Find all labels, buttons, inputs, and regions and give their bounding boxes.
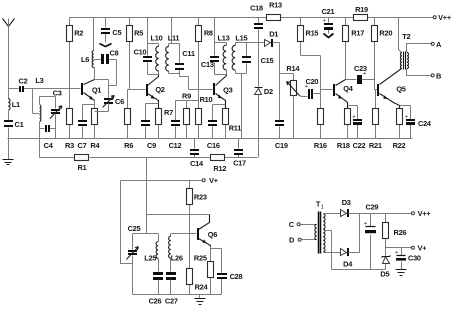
svg-text:C24: C24 bbox=[418, 119, 432, 128]
inductor L25 bbox=[144, 234, 158, 272]
wire R14 feed bbox=[280, 74, 294, 121]
svg-text:R6: R6 bbox=[124, 141, 133, 150]
wire T1 center tap bbox=[324, 231, 332, 270]
svg-text:D5: D5 bbox=[380, 269, 389, 278]
inductor L15 bbox=[232, 45, 235, 70]
transformer T2 bbox=[399, 18, 432, 76]
SECTION: IF stage Q3 bbox=[169, 18, 274, 174]
capacitor C29 electrolytic bbox=[364, 202, 379, 269]
inductor L13 bbox=[223, 45, 226, 70]
capacitor C30 electrolytic bbox=[395, 248, 421, 270]
svg-text:R15: R15 bbox=[305, 28, 318, 37]
svg-text:+: + bbox=[352, 114, 355, 120]
terminal V++ psu bbox=[411, 209, 431, 218]
ground G3 psu bbox=[396, 270, 407, 276]
transistor Q3 bbox=[213, 75, 233, 109]
svg-text:V+: V+ bbox=[209, 176, 219, 185]
svg-text:C22: C22 bbox=[353, 141, 366, 150]
capacitor C19 bbox=[275, 120, 288, 150]
svg-text:C25: C25 bbox=[128, 224, 141, 233]
svg-text:L13: L13 bbox=[218, 33, 230, 42]
svg-text:D1: D1 bbox=[269, 30, 278, 39]
inductor L3 bbox=[35, 76, 43, 121]
wire detector node line bbox=[247, 30, 265, 158]
svg-text:C21: C21 bbox=[322, 7, 335, 16]
svg-text:L10: L10 bbox=[151, 33, 163, 42]
svg-text:C8: C8 bbox=[110, 48, 119, 57]
svg-text:C14: C14 bbox=[190, 159, 204, 168]
capacitor C13 bbox=[210, 56, 219, 58]
svg-text:C26: C26 bbox=[149, 297, 162, 306]
svg-text:Q1: Q1 bbox=[92, 86, 101, 95]
svg-text:+: + bbox=[405, 114, 408, 120]
svg-text:R21: R21 bbox=[369, 141, 382, 150]
capacitor C1 bbox=[4, 120, 24, 129]
capacitor C16 bbox=[207, 105, 226, 151]
wire top supply bus bbox=[70, 17, 434, 19]
tank L11 C11 bbox=[166, 18, 195, 74]
T2 secondary bbox=[407, 53, 409, 69]
trimmer C3 bbox=[40, 88, 62, 138]
wire T1 secondary bottom to D4 bbox=[324, 252, 341, 254]
tank L15 C15 bbox=[232, 33, 273, 138]
svg-text:L3: L3 bbox=[35, 76, 43, 85]
svg-text:D2: D2 bbox=[264, 87, 273, 96]
capacitor C23 bbox=[354, 64, 375, 84]
svg-text:+: + bbox=[395, 250, 398, 256]
capacitor C2 bbox=[19, 77, 28, 92]
svg-text:R1: R1 bbox=[78, 163, 87, 172]
wire main ground bus1 bbox=[8, 138, 413, 140]
inductor L11 bbox=[166, 46, 169, 71]
wire L3 bottom to bus2 bbox=[39, 122, 41, 158]
svg-text:1: 1 bbox=[321, 205, 324, 211]
transistor Q2 bbox=[146, 75, 165, 109]
capacitor C18 bbox=[250, 4, 263, 30]
svg-text:V++: V++ bbox=[418, 209, 432, 218]
wire L1-C1 bbox=[8, 110, 10, 121]
svg-text:R19: R19 bbox=[355, 5, 368, 14]
svg-text:Q4: Q4 bbox=[343, 84, 353, 93]
resistor R21 bbox=[369, 90, 382, 151]
svg-text:L6: L6 bbox=[81, 55, 89, 64]
resistor R22 bbox=[393, 109, 406, 151]
svg-text:C3: C3 bbox=[53, 88, 62, 97]
T2 primary bbox=[400, 53, 402, 69]
resistor R9 bbox=[182, 92, 191, 139]
trimmer C6 bbox=[95, 95, 125, 111]
svg-text:C28: C28 bbox=[230, 272, 243, 281]
capacitor C15 bbox=[242, 56, 251, 58]
node A1 wire C2 branch bbox=[9, 88, 33, 90]
svg-text:R13: R13 bbox=[269, 1, 282, 10]
svg-text:C20: C20 bbox=[305, 77, 318, 86]
svg-text:D4: D4 bbox=[343, 260, 353, 269]
wire Q3 base bbox=[189, 89, 213, 91]
wire Q4 base bbox=[321, 89, 333, 91]
terminal A bbox=[431, 40, 442, 49]
SECTION: antenna input bbox=[3, 18, 125, 172]
svg-text:R5: R5 bbox=[134, 29, 143, 38]
diode D4 bbox=[341, 214, 360, 269]
svg-text:V++: V++ bbox=[438, 13, 452, 22]
capacitor C22 electrolytic bbox=[348, 106, 366, 151]
resistor R1 bbox=[75, 155, 89, 172]
wire R9 R10 line bbox=[176, 90, 199, 109]
svg-text:R26: R26 bbox=[393, 228, 406, 237]
capacitor C4 bbox=[40, 125, 56, 150]
svg-text:R3: R3 bbox=[65, 141, 74, 150]
SECTION: oscillator bbox=[126, 176, 242, 305]
svg-text:C4: C4 bbox=[44, 141, 54, 150]
svg-text:D3: D3 bbox=[342, 198, 351, 207]
svg-text:C11: C11 bbox=[182, 49, 195, 58]
resistor R2 bbox=[67, 18, 84, 89]
terminal V+ mid bbox=[202, 176, 219, 185]
wire Q2 base bbox=[128, 89, 146, 91]
svg-text:R17: R17 bbox=[351, 28, 364, 37]
antenna bbox=[3, 19, 15, 27]
resistor R4 bbox=[90, 109, 100, 151]
capacitor C27 bbox=[165, 272, 178, 306]
wire oscillator collector line bbox=[147, 214, 210, 216]
svg-text:C12: C12 bbox=[169, 141, 182, 150]
trimmer C25 bbox=[126, 224, 140, 295]
svg-text:C6: C6 bbox=[115, 97, 124, 106]
svg-text:C13: C13 bbox=[201, 60, 214, 69]
terminal C bbox=[289, 220, 317, 229]
svg-text:R16: R16 bbox=[314, 141, 327, 150]
diode D2 bbox=[255, 87, 274, 96]
svg-text:C29: C29 bbox=[365, 202, 378, 211]
terminal V+ psu bbox=[411, 244, 427, 253]
WIRES-MAIN bbox=[8, 18, 434, 295]
resistor R16 bbox=[314, 109, 327, 151]
resistor R6 bbox=[124, 90, 133, 151]
capacitor C26 bbox=[149, 272, 163, 306]
inductor L1 bbox=[8, 99, 20, 110]
transistor Q6 bbox=[197, 215, 217, 247]
wire tank2 bottom jog bbox=[180, 74, 189, 90]
T1 core bbox=[319, 212, 321, 254]
svg-text:R4: R4 bbox=[90, 141, 100, 150]
resistor R19 bbox=[354, 5, 369, 21]
resistor R7 bbox=[156, 108, 174, 138]
transistor Q4 bbox=[333, 80, 354, 109]
resistor R5 bbox=[127, 18, 144, 90]
svg-text:C30: C30 bbox=[408, 254, 421, 263]
tank L13 C13 bbox=[201, 18, 230, 75]
resistor R15 bbox=[298, 18, 321, 109]
wire L3 tap bbox=[33, 89, 40, 114]
ground G1 bbox=[3, 160, 14, 165]
capacitor C10 bbox=[143, 56, 152, 58]
svg-text:R10: R10 bbox=[200, 95, 213, 104]
svg-text:C9: C9 bbox=[147, 141, 156, 150]
svg-text:Q2: Q2 bbox=[155, 85, 164, 94]
wire Q6 base line bbox=[171, 233, 197, 235]
svg-text:R20: R20 bbox=[379, 28, 392, 37]
tank L10 C10 bbox=[134, 18, 163, 75]
svg-text:+: + bbox=[323, 18, 326, 24]
wire tank1 frame bbox=[148, 18, 159, 75]
wire tank2 frame bbox=[169, 18, 180, 74]
svg-text:C2: C2 bbox=[19, 77, 28, 86]
wire T2 secondary taps bbox=[407, 44, 432, 76]
resistor R26 bbox=[383, 214, 407, 248]
wire tank3 frame bbox=[215, 18, 227, 75]
T2 core bbox=[404, 52, 406, 70]
wire Q1 emitter node bbox=[83, 101, 95, 121]
wire T2 primary feed bbox=[399, 18, 402, 53]
capacitor C5 bbox=[100, 18, 122, 47]
wire PSU bottom rail bbox=[332, 269, 386, 271]
resistor R3 bbox=[65, 89, 74, 151]
wire oscillator bottom bus3 bbox=[133, 294, 222, 296]
transistor Q5 bbox=[377, 69, 406, 109]
svg-text:R23: R23 bbox=[194, 193, 207, 202]
terminal V++ top bbox=[433, 13, 452, 22]
capacitor C20 electrolytic bbox=[305, 77, 321, 99]
svg-text:D: D bbox=[289, 236, 295, 245]
wire Q1 collector bbox=[94, 68, 95, 80]
svg-text:Q6: Q6 bbox=[208, 230, 217, 239]
capacitor C8 bbox=[94, 48, 119, 85]
svg-text:R22: R22 bbox=[393, 141, 406, 150]
SECTION: detector bbox=[247, 1, 335, 158]
SECTION: power supply bbox=[289, 198, 432, 278]
wire tank4 frame bbox=[236, 43, 247, 139]
svg-text:R8: R8 bbox=[204, 29, 213, 38]
wire oscillator C25 top line bbox=[133, 233, 159, 235]
svg-text:+: + bbox=[364, 221, 367, 227]
ground G2 oscillator bbox=[195, 295, 206, 305]
transformer T1 bbox=[315, 200, 386, 270]
wire Q1 collector branch to C6 bbox=[95, 80, 109, 98]
inductor L6 bbox=[81, 18, 94, 68]
svg-text:C10: C10 bbox=[134, 48, 147, 57]
capacitor C7 bbox=[78, 120, 87, 150]
terminal D bbox=[289, 236, 316, 245]
svg-text:R11: R11 bbox=[229, 124, 242, 133]
svg-text:B: B bbox=[436, 71, 441, 80]
svg-text:C15: C15 bbox=[261, 56, 274, 65]
SECTION: IF stage Q2 bbox=[124, 18, 195, 151]
resistor R23 bbox=[187, 181, 207, 269]
capacitor C17 bbox=[233, 139, 246, 168]
capacitor C14 bbox=[190, 139, 204, 168]
svg-text:C19: C19 bbox=[275, 141, 288, 150]
svg-text:R14: R14 bbox=[286, 64, 300, 73]
wire T1 secondary top to D3 bbox=[324, 213, 341, 215]
terminal B bbox=[431, 71, 441, 80]
potentiometer R14 bbox=[286, 64, 307, 139]
wire C9-to-oscillator vertical bbox=[146, 158, 148, 234]
svg-text:L26: L26 bbox=[171, 254, 183, 263]
svg-text:V+: V+ bbox=[418, 244, 428, 253]
capacitor C28 bbox=[211, 249, 243, 295]
capacitor C21 electrolytic bbox=[322, 7, 335, 38]
svg-text:C27: C27 bbox=[165, 297, 178, 306]
capacitor C12 bbox=[169, 101, 182, 151]
resistor R25 bbox=[194, 247, 214, 295]
wire antenna mast bbox=[8, 19, 10, 99]
capacitor C9 bbox=[141, 104, 159, 151]
svg-text:T2: T2 bbox=[402, 32, 410, 41]
svg-text:C: C bbox=[289, 220, 295, 229]
resistor R11 bbox=[223, 109, 242, 139]
wire PSU V+ line bbox=[386, 247, 412, 249]
SECTION: audio stages bbox=[321, 5, 452, 150]
svg-text:C17: C17 bbox=[233, 159, 246, 168]
wire C1-bus1-ground bbox=[8, 128, 10, 160]
svg-text:R24: R24 bbox=[195, 283, 209, 292]
resistor R12 bbox=[211, 155, 227, 174]
resistor R20 bbox=[372, 18, 393, 90]
diode D1 bbox=[265, 30, 280, 74]
resistor R8 bbox=[196, 18, 213, 90]
wire oscillator left rail bbox=[121, 181, 133, 264]
capacitor C24 electrolytic bbox=[400, 106, 432, 139]
wire Q1 base line bbox=[33, 88, 81, 90]
inductor L10 bbox=[156, 46, 159, 71]
svg-text:C1: C1 bbox=[15, 120, 24, 129]
svg-text:L11: L11 bbox=[168, 33, 180, 42]
zener D5 bbox=[380, 248, 390, 279]
svg-text:C16: C16 bbox=[207, 141, 220, 150]
svg-text:L15: L15 bbox=[235, 33, 247, 42]
svg-text:C23: C23 bbox=[354, 64, 367, 73]
wire AGC bus2 bbox=[40, 157, 258, 159]
svg-text:L1: L1 bbox=[12, 100, 20, 109]
resistor R24 bbox=[187, 269, 209, 295]
wire V+ oscillator feed bbox=[121, 180, 203, 182]
svg-text:R12: R12 bbox=[213, 164, 226, 173]
svg-text:R9: R9 bbox=[182, 92, 191, 101]
capacitor C11 bbox=[175, 63, 184, 65]
diode D3 bbox=[341, 198, 412, 217]
resistor R10 bbox=[196, 95, 213, 139]
T1 primary bbox=[315, 224, 317, 239]
svg-text:R25: R25 bbox=[194, 253, 207, 262]
T1 secondary bbox=[323, 214, 325, 252]
svg-text:R7: R7 bbox=[164, 108, 173, 117]
svg-text:Q3: Q3 bbox=[223, 85, 232, 94]
resistor R17 bbox=[343, 18, 365, 80]
inductor L26 bbox=[169, 234, 183, 272]
svg-text:C7: C7 bbox=[78, 141, 87, 150]
svg-text:R2: R2 bbox=[74, 29, 83, 38]
svg-text:Q5: Q5 bbox=[396, 84, 405, 93]
resistor R18 bbox=[337, 109, 351, 151]
transistor Q1 bbox=[81, 80, 101, 101]
svg-text:C5: C5 bbox=[112, 28, 121, 37]
resistor R13 bbox=[267, 1, 283, 21]
svg-text:R18: R18 bbox=[337, 141, 350, 150]
svg-text:C18: C18 bbox=[250, 4, 263, 13]
svg-text:L25: L25 bbox=[144, 254, 156, 263]
